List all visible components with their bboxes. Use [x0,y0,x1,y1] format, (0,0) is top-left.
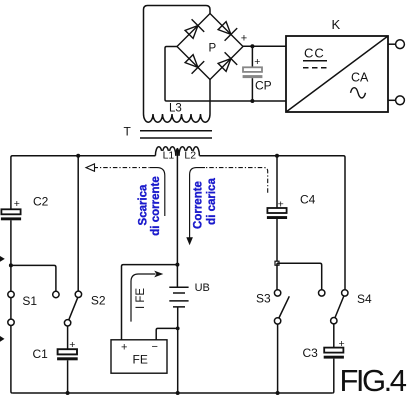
wire branch to S2 left contact [11,265,56,291]
wire S3 to bottom rail [277,324,279,393]
svg-text:C4: C4 [300,193,316,207]
switch S2 [53,291,59,297]
switch S4 [342,290,348,296]
svg-text:+: + [121,341,127,353]
transformer core [140,131,212,138]
svg-text:C3: C3 [303,346,319,360]
bottom rail [12,392,332,394]
diode D1 upper-left [185,19,204,38]
svg-text:S4: S4 [357,292,372,306]
svg-text:K: K [332,17,341,32]
svg-text:S2: S2 [91,293,106,307]
junction dot center tap [175,263,179,267]
svg-text:L3: L3 [169,103,182,115]
left rail lower [11,220,13,393]
symbol sine wave [351,88,366,98]
svg-text:CA: CA [351,71,369,85]
svg-text:di corrente: di corrente [150,176,162,235]
junction node on plus rail [250,44,254,48]
capacitor C2 [1,209,20,214]
battery UB [169,287,188,307]
junction dot bottom S3 [276,391,280,395]
symbol solid line under CC [303,60,327,62]
svg-text:+: + [241,33,247,45]
junction dot left rail [9,263,13,267]
svg-text:CP: CP [255,79,272,93]
wire rail to C4 [276,156,278,208]
transformer winding L1 [155,147,175,156]
svg-text:UB: UB [195,282,210,294]
wire: DC plus from right vertex to converter [243,45,286,47]
symbol dashed line under CC [303,67,327,69]
svg-text:+: + [69,339,75,351]
junction node CP bottom [250,99,254,103]
output terminal top [388,43,395,45]
winding pinch at center tap [176,149,179,156]
svg-text:FIG.4: FIG.4 [340,363,407,398]
svg-text:I FE: I FE [135,288,147,309]
wire FE minus lead [156,328,178,339]
bridge rectifier P diamond [177,14,243,80]
svg-text:+: + [254,56,260,68]
wire S2 to C1 [67,326,69,349]
junction dot battery FE branch [176,327,180,331]
output terminal bottom [388,99,395,101]
diode D3 lower-left [185,55,204,74]
wire rail down to S2 top contact [77,156,79,291]
junction dot rail left [76,154,80,158]
top rail right segment and right rail down to S4 [199,156,345,290]
capacitor C4 [267,208,286,213]
wire center tap down [176,149,178,264]
svg-text:+: + [278,199,284,211]
wire battery column bottom [177,307,179,393]
top rail left segment [11,156,156,209]
svg-text:−: − [152,341,158,353]
converter box K [286,36,388,112]
junction dot C4 bottom [275,261,279,265]
wire S4 to C3 [333,324,335,348]
fuel cell FE box [111,340,167,373]
wire FE plus lead [122,265,178,340]
converter diagonal [286,36,388,112]
svg-text:S1: S1 [22,294,37,308]
capacitor C3 [324,348,343,353]
svg-text:C2: C2 [33,195,49,209]
svg-text:+: + [14,198,20,210]
capacitor C1 [58,349,77,354]
junction dot rail right [275,154,279,158]
diode D4 lower-right [218,52,237,71]
svg-text:S3: S3 [256,291,271,305]
junction dot bottom UB [176,391,180,395]
wire down to S3 [276,263,278,290]
svg-text:L2: L2 [184,150,196,162]
svg-text:+: + [339,338,345,350]
scan mark left edge upper [0,256,5,262]
transformer winding L3 [144,114,211,122]
diode D2 upper-right [218,22,237,41]
svg-text:L1: L1 [163,150,175,162]
svg-text:Corrente: Corrente [193,181,205,229]
wire: L3 right end up to bridge bottom vertex [209,80,211,115]
current arrow I FE [131,274,156,322]
wire: DC minus from left vertex down and right to converter [165,47,286,102]
switch S3 [274,290,280,296]
label L2 [183,151,196,159]
svg-text:P: P [209,42,217,54]
svg-text:C1: C1 [33,347,49,361]
svg-text:CC: CC [304,46,325,61]
wire battery column top [176,265,178,288]
junction dot bottom C1 [66,391,70,395]
capacitor CP [251,46,253,67]
charge current arrow dash-dot [205,168,268,193]
discharge current arrow dash-dot [94,167,151,169]
scan mark left edge lower [0,336,5,342]
svg-text:T: T [124,125,132,139]
svg-text:Scarica: Scarica [138,184,150,226]
switch S1 [8,291,14,297]
svg-text:di carica: di carica [206,178,218,225]
wire: loop from bridge top vertex around to L3 left end [144,6,211,115]
contact circle middle [319,290,325,296]
transformer winding L2 [179,147,199,156]
svg-text:FE: FE [133,353,148,367]
wire branch to S4 middle contact [277,263,322,290]
label L1 [161,151,174,159]
